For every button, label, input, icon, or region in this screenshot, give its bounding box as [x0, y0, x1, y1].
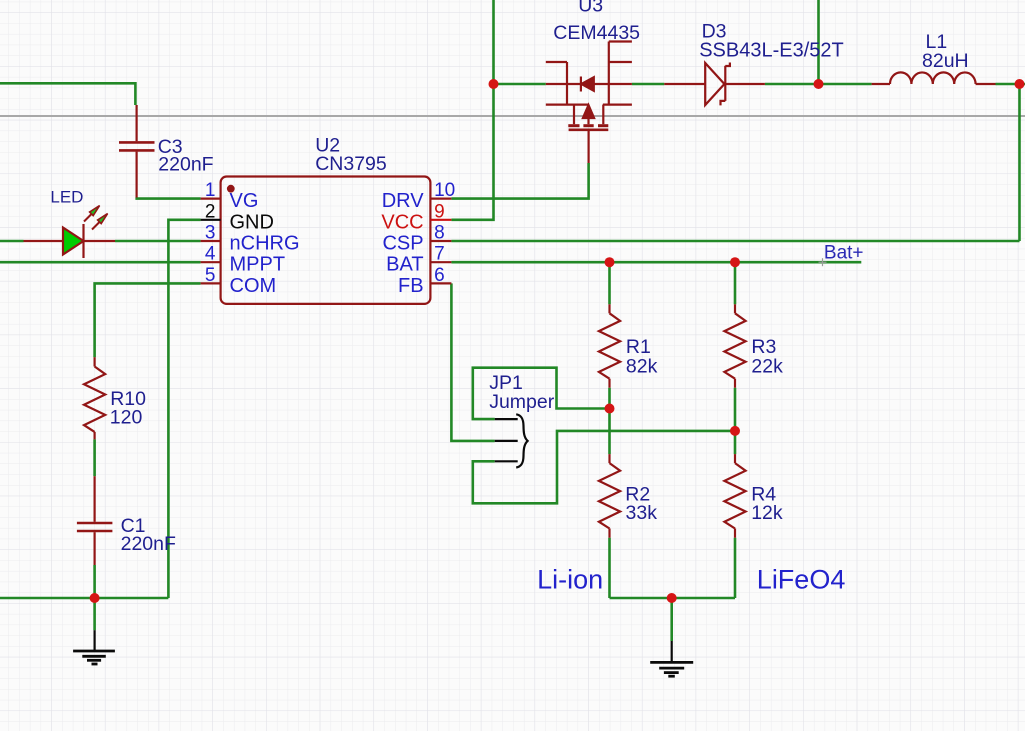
resistor R2	[599, 454, 620, 538]
svg-text:7: 7	[434, 244, 445, 265]
svg-text:1: 1	[205, 180, 216, 201]
svg-text:Bat+: Bat+	[824, 242, 864, 263]
wire junction to U3 source	[494, 83, 546, 86]
wire LED cathode to pin3 nCHRG	[115, 240, 201, 243]
pin 10 stub	[430, 198, 451, 200]
ground (left)	[73, 630, 115, 664]
svg-text:GND: GND	[230, 211, 274, 233]
svg-text:22k: 22k	[751, 356, 783, 378]
svg-text:DRV: DRV	[382, 190, 425, 212]
wire R3 bottom to R4 top	[734, 388, 737, 454]
wire BAT node down to R1	[608, 262, 611, 304]
junction R1/R2/JP1	[605, 404, 615, 414]
wire COM pin5 to R10 top	[95, 283, 201, 357]
svg-text:VCC: VCC	[381, 211, 423, 233]
wire BAT pin7 horizontal to Bat+ label	[451, 261, 861, 264]
pin 3 stub	[201, 240, 221, 242]
junction L1 right	[1015, 79, 1025, 89]
IC U2 CN3795 body	[221, 177, 431, 304]
wire CSP pin8 horizontal	[451, 240, 1019, 243]
junction R3/R4/JP1	[730, 426, 740, 436]
wire JP1 pin1 loop to R1/R2 node	[473, 368, 610, 419]
pin 1 stub	[201, 198, 221, 200]
svg-text:U3: U3	[578, 0, 603, 17]
svg-text:3: 3	[205, 223, 216, 244]
pin 8 stub	[430, 240, 451, 242]
wire vertical from top edge to D3/L1 node	[817, 0, 820, 84]
capacitor C1	[77, 476, 113, 565]
wire BAT node down to R3	[734, 262, 737, 304]
capacitor C3	[119, 105, 155, 198]
resistor R10	[84, 357, 105, 439]
net label Bat+ anchor tick	[819, 258, 827, 266]
sheet border gray line	[0, 115, 1025, 117]
svg-text:SSB43L-E3/52T: SSB43L-E3/52T	[699, 40, 844, 62]
wire L1 right to right edge	[996, 83, 1025, 86]
wire GND net bottom horizontal	[0, 597, 168, 600]
svg-text:120: 120	[110, 407, 143, 429]
wire GND net vertical	[168, 220, 200, 598]
svg-text:9: 9	[434, 201, 445, 222]
junction BAT/R3	[730, 257, 740, 267]
LED arrow 2	[92, 220, 102, 230]
wire R4 bottom to bottom ground rail	[734, 538, 737, 598]
svg-text:6: 6	[434, 265, 445, 286]
pin 5 stub	[201, 282, 221, 284]
LED diode symbol	[24, 206, 116, 258]
svg-text:82k: 82k	[626, 356, 658, 378]
wire MPPT from left edge to pin4	[0, 261, 201, 264]
svg-text:10: 10	[434, 180, 455, 201]
svg-text:2: 2	[205, 201, 216, 222]
svg-text:MPPT: MPPT	[230, 254, 286, 276]
wire R1 bottom to R2 top	[608, 388, 611, 454]
svg-text:220nF: 220nF	[121, 533, 176, 555]
svg-text:82uH: 82uH	[922, 50, 969, 72]
wire R10 bottom to C1 top	[93, 439, 96, 476]
svg-text:VG: VG	[230, 190, 259, 212]
wire U3 drain to D3 anode	[632, 83, 664, 86]
pin 9 stub (red)	[430, 219, 451, 221]
svg-text:COM: COM	[230, 275, 277, 297]
junction C1/GND rail	[90, 593, 100, 603]
svg-text:12k: 12k	[751, 502, 783, 524]
resistor R1	[599, 304, 620, 387]
pin 6 stub	[430, 282, 451, 284]
jumper JP1 pins (black)	[495, 414, 528, 467]
diode D3 SSB43L (Schottky)	[664, 63, 765, 106]
wire L1 right node down to CSP net	[1018, 84, 1021, 241]
pin 2 stub (black)	[201, 219, 221, 221]
svg-text:220nF: 220nF	[158, 154, 213, 176]
svg-text:4: 4	[205, 244, 216, 265]
svg-text:CN3795: CN3795	[315, 153, 387, 175]
svg-text:LiFeO4: LiFeO4	[757, 564, 846, 594]
wire nCHRG left edge to LED anode	[0, 240, 24, 243]
transistor U3 CEM4435 (P-MOSFET)	[546, 42, 632, 164]
LED arrow 1	[84, 212, 94, 222]
svg-text:Li-ion: Li-ion	[537, 564, 603, 594]
svg-text:Jumper: Jumper	[489, 391, 555, 413]
svg-text:5: 5	[205, 265, 216, 286]
wire C3 bottom to pin1 VG	[135, 197, 200, 200]
resistor R3	[724, 304, 745, 387]
junction BAT/R1	[605, 257, 615, 267]
wire VCC vertical from top edge through junction to pin9	[451, 0, 493, 220]
pin 1 indicator dot	[227, 185, 235, 193]
wire bottom ground rail	[610, 597, 736, 600]
wire DRV pin10 to U3 gate	[451, 163, 588, 199]
wire R2 bottom to bottom ground rail	[608, 538, 611, 598]
svg-text:CEM4435: CEM4435	[553, 22, 640, 44]
wire JP1 pin3 loop to R3/R4 node	[473, 431, 735, 503]
wire C1 bottom to ground junction	[93, 565, 96, 630]
jumper JP1 brace	[516, 414, 527, 467]
svg-text:CSP: CSP	[382, 233, 423, 255]
svg-text:8: 8	[434, 223, 445, 244]
svg-text:FB: FB	[398, 275, 424, 297]
wire D3 cathode to L1 left	[765, 83, 872, 86]
svg-text:33k: 33k	[626, 502, 658, 524]
svg-text:nCHRG: nCHRG	[230, 233, 300, 255]
junction D3/L1 top	[814, 79, 824, 89]
svg-text:BAT: BAT	[386, 254, 423, 276]
junction VCC/U3 source	[489, 79, 499, 89]
wire VG net from left edge to C3 top	[0, 83, 135, 105]
pin 4 stub	[201, 261, 221, 263]
ground (bottom middle)	[650, 641, 693, 676]
junction bottom ground rail	[667, 593, 677, 603]
inductor L1	[872, 72, 996, 84]
wire FB pin6 down to JP1 pin2	[451, 283, 494, 441]
svg-text:LED: LED	[50, 188, 83, 207]
resistor R4	[724, 454, 745, 538]
pin 7 stub	[430, 261, 451, 263]
wire ground rail to ground symbol	[670, 598, 673, 641]
